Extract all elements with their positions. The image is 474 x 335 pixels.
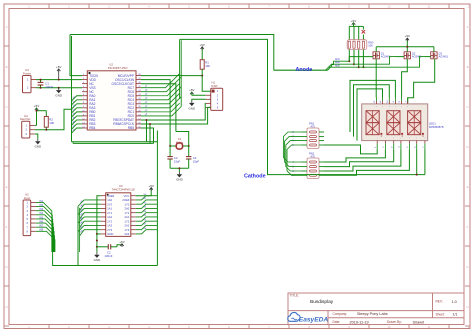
svg-text:G: G	[5, 265, 7, 269]
junction C1 top	[40, 79, 42, 81]
svg-text:IN2: IN2	[39, 204, 43, 207]
capacitor C2 100nF	[97, 244, 122, 258]
svg-text:Sleepy Pony Labs: Sleepy Pony Labs	[357, 312, 388, 316]
wire MCLR to H1 pin1	[202, 76, 211, 92]
svg-text:1A0: 1A0	[107, 198, 112, 202]
wire U3 right fan	[136, 196, 158, 234]
title block	[288, 293, 464, 325]
svg-text:dp: dp	[422, 136, 424, 138]
svg-text:F: F	[467, 225, 469, 229]
wire anode trunk	[274, 69, 328, 71]
wire left riser to U3	[77, 206, 79, 265]
svg-text:Drawn By:: Drawn By:	[387, 320, 402, 324]
wire RN2 out 2	[324, 149, 394, 166]
svg-text:2A1: 2A1	[125, 215, 130, 219]
svg-text:100nF: 100nF	[105, 254, 113, 258]
power +5V flag near H1	[189, 88, 206, 95]
svg-text:PIC16F57-I/SO: PIC16F57-I/SO	[108, 66, 129, 70]
EasyEDA logo	[288, 312, 329, 323]
connector H4 Nav/Osc	[20, 114, 35, 138]
wire anode fan AN1	[326, 61, 350, 70]
svg-text:G: G	[466, 265, 468, 269]
svg-text:+5V: +5V	[189, 88, 194, 92]
svg-text:2OE#: 2OE#	[122, 198, 129, 202]
svg-text:RB4: RB4	[89, 126, 95, 130]
svg-text:GND: GND	[55, 94, 63, 98]
junction GND 1	[96, 233, 98, 235]
wire OSC1 to crystal	[141, 80, 170, 146]
power +5V flag above Q2	[405, 34, 410, 41]
wire RN2 out 1	[324, 149, 385, 162]
wire U3 VCC to +5V	[136, 184, 154, 196]
net labels on right fan	[145, 84, 149, 116]
wire cathode trunk	[180, 39, 425, 174]
svg-text:H: H	[466, 305, 468, 309]
wire RB5 hook	[141, 128, 154, 143]
junction MCLR R1	[201, 75, 203, 77]
svg-text:2Y0: 2Y0	[107, 202, 112, 206]
resistor R1 10K	[200, 47, 210, 76]
wire left bundle vertical	[71, 36, 73, 142]
wire Q2 drain to LED	[402, 59, 408, 98]
svg-text:D: D	[466, 145, 468, 149]
wire bundle under U2 line2	[73, 142, 154, 144]
svg-text:D: D	[5, 145, 7, 149]
wire long vertical to bottom bus	[156, 131, 158, 266]
svg-text:IN8: IN8	[39, 229, 43, 232]
wire segment loop c	[357, 89, 383, 141]
wire gate links	[354, 57, 425, 68]
junction crystal right	[188, 145, 190, 147]
wire RN2 out 4	[324, 149, 409, 175]
wire RN1 row4 under LED	[324, 145, 377, 154]
IC U3 74HCT244PW	[101, 184, 136, 236]
wire H1 pin3 to ground	[192, 99, 206, 100]
svg-text:IN3: IN3	[39, 208, 43, 211]
wire H2 bundle to bottom bus	[53, 252, 158, 266]
power +5V flag near C2	[119, 240, 124, 247]
wire right pin fan to bus	[141, 74, 181, 116]
svg-text:B: B	[6, 65, 8, 69]
ground symbol near U3	[94, 252, 102, 262]
svg-text:10: 10	[387, 325, 391, 329]
title block Date row	[333, 320, 425, 324]
ground symbol near H4	[34, 139, 42, 149]
wire source rail +5V	[376, 38, 434, 52]
connector H1 ICSP	[206, 81, 223, 111]
wire OSC2 to crystal	[141, 84, 176, 132]
svg-text:GND: GND	[34, 145, 42, 149]
wire anode fan AN0	[328, 67, 359, 70]
wire MCLR net	[141, 75, 202, 77]
svg-text:VCC: VCC	[124, 194, 130, 198]
wire right bus riser	[180, 39, 182, 106]
svg-text:11: 11	[428, 325, 431, 329]
svg-text:+5V: +5V	[405, 34, 410, 38]
junction GND 3	[96, 246, 98, 248]
svg-text:Cathode: Cathode	[244, 174, 266, 180]
capacitor C1	[38, 80, 54, 90]
wire cathode fan bundle	[283, 132, 301, 175]
ground symbol near H3	[55, 88, 63, 98]
svg-text:Sirawit: Sirawit	[413, 320, 425, 324]
svg-text:1A3: 1A3	[107, 224, 112, 228]
junction crystal rail	[178, 167, 180, 169]
wire GND net down	[96, 234, 98, 252]
wire RN3 bottoms	[349, 50, 363, 68]
svg-text:Nav/Osc: Nav/Osc	[20, 117, 31, 121]
svg-text:AO3401: AO3401	[439, 55, 449, 59]
wire nested corner 1	[146, 120, 148, 142]
svg-text:IN6: IN6	[39, 220, 43, 223]
svg-text:1Y0: 1Y0	[125, 202, 130, 206]
wire U3 OE to gnd net	[97, 196, 101, 234]
wire left pin fan	[72, 96, 83, 133]
svg-text:IN1: IN1	[39, 200, 43, 203]
junction R2 branch	[36, 110, 38, 112]
svg-text:A: A	[467, 25, 469, 29]
junction cathode pin	[416, 174, 418, 176]
junction ICSPDAT	[146, 119, 148, 121]
svg-text:REV:: REV:	[436, 300, 443, 304]
wire H4 pin3 to ground	[35, 134, 38, 139]
svg-text:E: E	[467, 185, 469, 189]
IC U2 PIC16F57-I/SO	[82, 62, 141, 130]
svg-text:A: A	[6, 25, 8, 29]
wire Q1 gate	[349, 56, 373, 58]
svg-text:2Y3: 2Y3	[107, 228, 112, 232]
svg-text:74HCT244PW.118: 74HCT244PW.118	[112, 188, 136, 192]
title block REV	[436, 300, 457, 304]
svg-text:Anode: Anode	[296, 67, 313, 73]
svg-text:TITLE:: TITLE:	[290, 294, 300, 298]
junction GND 2	[96, 240, 98, 242]
crystal X1 4MHz	[170, 137, 189, 149]
svg-text:Power: Power	[23, 71, 31, 75]
svg-text:11: 11	[428, 5, 431, 9]
svg-text:2019-11-19: 2019-11-19	[350, 320, 369, 324]
wire Q1 drain to LED	[375, 59, 377, 98]
junction +5V rail	[58, 79, 60, 81]
wire Q3 drain to LED	[408, 59, 435, 104]
svg-text:EasyEDA: EasyEDA	[299, 316, 329, 323]
wire ICSPDAT to H1 pin4	[141, 103, 206, 120]
svg-text:12: 12	[467, 5, 471, 9]
svg-text:1.0: 1.0	[452, 300, 457, 304]
wire H4 pin2 net	[35, 109, 72, 130]
svg-text:IN4: IN4	[39, 212, 43, 215]
svg-text:H: H	[5, 305, 7, 309]
net labels U3 outputs	[144, 194, 147, 230]
svg-text:+5V: +5V	[34, 104, 39, 108]
svg-text:1A1: 1A1	[107, 207, 112, 211]
svg-text:RB5: RB5	[128, 126, 134, 130]
svg-text:1Y2: 1Y2	[125, 219, 130, 223]
svg-text:100nF: 100nF	[45, 85, 53, 89]
LED1 top pins	[374, 98, 408, 109]
resistor network RN2 470	[302, 152, 325, 179]
svg-text:C: C	[466, 105, 468, 109]
power +5V flag near H4	[34, 104, 39, 125]
svg-text:10K: 10K	[205, 64, 210, 68]
svg-text:B: B	[467, 65, 469, 69]
svg-text:GND: GND	[188, 106, 196, 110]
svg-text:+5V: +5V	[199, 43, 204, 47]
wire U3 GND pin	[97, 233, 101, 235]
junction ICSPCLK	[149, 123, 151, 125]
svg-text:2A0: 2A0	[125, 207, 130, 211]
svg-text:IN5: IN5	[39, 216, 43, 219]
title block Company row	[333, 312, 388, 316]
connector H2 Input	[23, 193, 36, 236]
wire Q2 gate	[396, 56, 405, 58]
no-connect X on RN3 pin	[362, 30, 366, 34]
svg-text:IN7: IN7	[39, 225, 43, 228]
svg-text:GND: GND	[176, 178, 184, 182]
junction GND rail	[58, 87, 60, 89]
svg-text:AN0: AN0	[335, 64, 340, 67]
svg-text:E: E	[6, 185, 8, 189]
svg-text:1Y3: 1Y3	[125, 228, 130, 232]
svg-text:Sheet:: Sheet:	[436, 313, 445, 317]
power +5V flag near H3	[56, 65, 61, 80]
svg-text:1OE#: 1OE#	[107, 194, 114, 198]
svg-text:15pF: 15pF	[193, 160, 200, 164]
svg-text:+5V: +5V	[148, 184, 153, 188]
wire H4 pin1 to +5V	[35, 124, 37, 126]
junction C1 bottom	[40, 87, 42, 89]
wire bundle under U2 line1	[72, 141, 158, 143]
svg-text:Input: Input	[24, 196, 30, 200]
svg-text:ICSP: ICSP	[211, 84, 218, 88]
svg-text:F: F	[6, 225, 8, 229]
wire +5V to R2 top	[37, 110, 47, 112]
svg-text:Busdisplay: Busdisplay	[310, 299, 334, 305]
ground symbol near H1	[188, 101, 196, 111]
junction source rail	[406, 46, 408, 48]
svg-text:10K: 10K	[368, 44, 373, 48]
capacitor C4 15pF	[186, 146, 199, 168]
net labels IN1-IN8	[39, 200, 43, 232]
svg-text:GND: GND	[94, 258, 102, 262]
power +5V flag above R1	[199, 43, 204, 50]
transistor Q3 AO3401	[431, 51, 449, 58]
wire U3 left inputs	[78, 200, 101, 236]
svg-text:1A2: 1A2	[107, 215, 112, 219]
ground symbol below crystal	[176, 172, 184, 182]
net labels on left fan	[73, 96, 77, 132]
wire H2 fan	[36, 202, 55, 252]
LED1 reference label	[429, 122, 444, 130]
wire top bus line A	[70, 35, 274, 71]
svg-text:2A3: 2A3	[125, 232, 130, 236]
svg-text:1Y1: 1Y1	[125, 211, 130, 215]
wire cathode to LED pin 2	[424, 149, 426, 174]
svg-text:2A2: 2A2	[125, 224, 130, 228]
wire segment loop a	[350, 80, 395, 132]
transistor Q2 AO3401	[404, 51, 422, 58]
svg-text:2Y1: 2Y1	[107, 211, 112, 215]
svg-text:Date:: Date:	[333, 320, 341, 324]
capacitor C3 15pF	[167, 146, 180, 168]
wire H3 pin2 VSS rail	[36, 87, 82, 89]
pin numbers RN2	[292, 161, 294, 177]
svg-text:1/1: 1/1	[453, 313, 458, 317]
net labels U3 inputs	[80, 200, 84, 234]
svg-text:C: C	[5, 105, 7, 109]
wire cathode to LED pin	[416, 149, 418, 174]
junction R2 bottom	[45, 129, 47, 131]
svg-text:GND: GND	[107, 232, 113, 236]
wire RN2 out 3	[324, 149, 401, 171]
svg-text:Company:: Company:	[333, 312, 348, 316]
junction AN2 gate	[353, 63, 355, 65]
resistor network RN3 10K	[347, 40, 374, 50]
LED1 seven segment display	[362, 104, 428, 141]
connector H3 Power	[23, 68, 37, 93]
wire Q3 gate	[425, 56, 431, 58]
power +5V flag above RN3	[351, 19, 356, 27]
resistor R2 10K	[44, 111, 54, 130]
junction AN0 gate	[358, 66, 360, 68]
title block Sheet cell	[436, 313, 458, 317]
svg-text:10: 10	[387, 5, 391, 9]
svg-text:SP#050878: SP#050878	[429, 125, 444, 129]
svg-text:dp: dp	[401, 136, 403, 138]
wire ICSPCLK to H1 pin5	[141, 107, 211, 124]
wire H3 pin1 VDD rail	[36, 79, 82, 81]
wire crystal ground rail	[170, 168, 189, 172]
wire segment loop b	[354, 85, 390, 137]
junction crystal left	[169, 145, 171, 147]
svg-text:12: 12	[467, 325, 471, 329]
resistor network RN1 470	[302, 122, 325, 149]
svg-text:2Y2: 2Y2	[107, 219, 112, 223]
svg-text:+5V: +5V	[56, 65, 61, 69]
junction AN1 gate	[348, 60, 350, 62]
wire left vertical to T0CKI	[70, 35, 82, 76]
wire RN3 top rail	[349, 26, 363, 39]
transistor Q1 AO3401	[373, 51, 391, 58]
pin numbers RN1	[292, 131, 294, 147]
svg-text:+5V: +5V	[351, 19, 356, 23]
svg-text:dp: dp	[380, 136, 382, 138]
wire anode fan AN2	[328, 64, 355, 70]
svg-text:15pF: 15pF	[174, 160, 181, 164]
svg-text:+5V: +5V	[119, 240, 124, 244]
LED1 bottom pins	[375, 138, 426, 150]
svg-text:10K: 10K	[49, 121, 54, 125]
wire nested corner 2	[149, 124, 151, 143]
